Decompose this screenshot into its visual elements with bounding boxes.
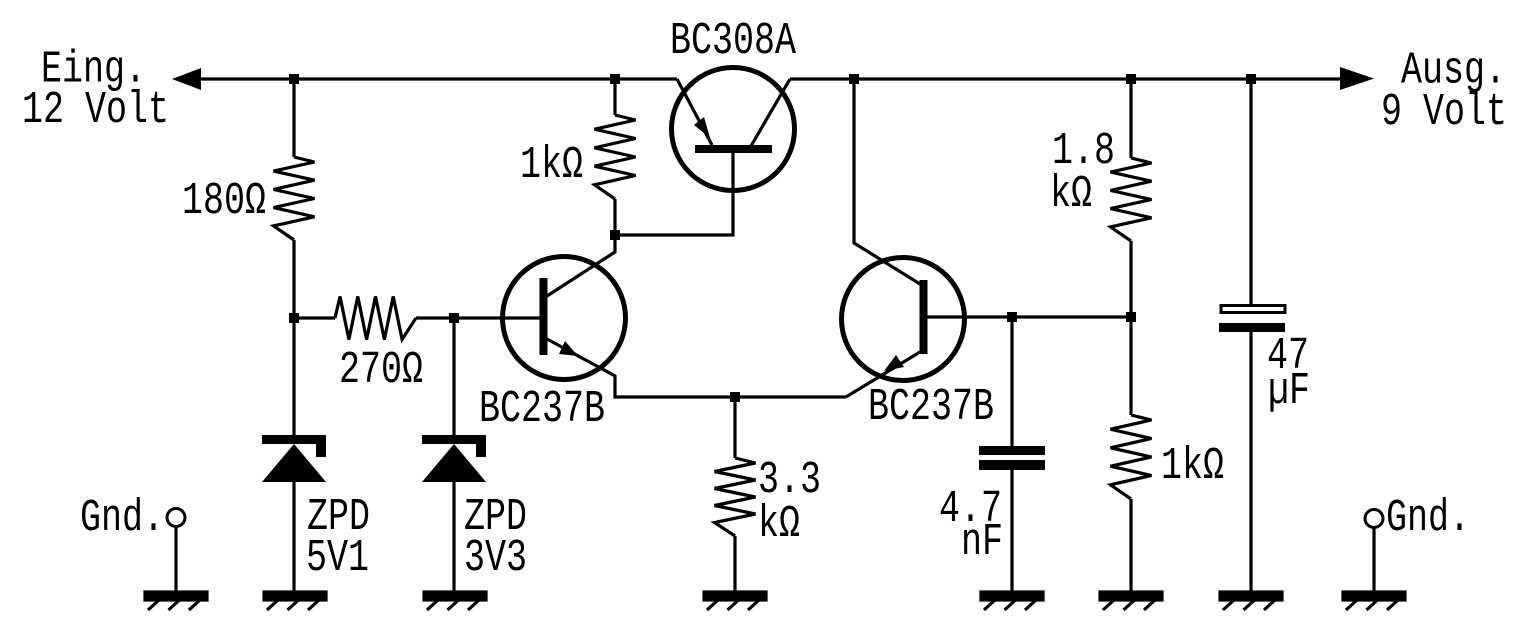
- label 180 ohm: [182, 176, 266, 227]
- wire zener ZPD 5V1 to ground: [292, 481, 295, 593]
- wire top rail left (input to BC308A emitter): [198, 77, 677, 80]
- wire 180ohm node to R 270 ohm: [294, 316, 335, 319]
- wire R270 to base node: [416, 316, 456, 319]
- transistor BC308A emitter lead (to 12V rail): [677, 79, 712, 145]
- wire R1k to base node of BC308A: [613, 199, 616, 235]
- transistor Q1 collector lead: [547, 235, 615, 296]
- wire rail to capacitor 47uF: [1249, 79, 1252, 304]
- svg-text:nF: nF: [961, 517, 1003, 568]
- transistor Q2 base bar: [920, 280, 928, 354]
- label ZPD 5V1: [306, 492, 370, 584]
- transistor BC308A (PNP pass) circle: [672, 68, 795, 191]
- wire rail to R 1.8k: [1129, 79, 1132, 158]
- transistor Q2 emitter arrow: [884, 355, 904, 371]
- wire R180 to zener ZPD 5V1: [292, 240, 295, 436]
- svg-text:µF: µF: [1268, 366, 1310, 417]
- wire right Gnd terminal to ground: [1372, 528, 1375, 593]
- svg-text:12 Volt: 12 Volt: [22, 85, 169, 136]
- node junction 1k / BC308A base / Q1 collector: [610, 230, 620, 240]
- svg-text:BC237B: BC237B: [868, 382, 994, 433]
- label input Eing. 12 Volt: [22, 45, 169, 137]
- ground under 1k right: [1100, 592, 1162, 610]
- node junction top of 1.8k: [1126, 74, 1136, 84]
- svg-text:kΩ: kΩ: [758, 499, 800, 550]
- transistor Q2 emitter lead: [846, 352, 920, 397]
- output arrow (Ausg.): [1340, 67, 1374, 90]
- ground under ZPD 5V1: [264, 592, 326, 610]
- label 1k ohm right: [1161, 441, 1224, 492]
- resistor 270 ohm: [335, 297, 416, 340]
- label BC308A: [670, 16, 797, 67]
- ground terminal right circle: [1365, 510, 1383, 528]
- svg-text:1kΩ: 1kΩ: [520, 140, 583, 191]
- node junction collector wire at rail: [849, 74, 859, 84]
- transistor BC308A collector lead (to 9V rail): [751, 79, 790, 146]
- resistor 3.3k ohm: [715, 458, 756, 536]
- label 3.3 kOhm: [758, 455, 821, 550]
- wire node to capacitor 4.7nF: [1010, 317, 1013, 446]
- ground under 4.7nF: [981, 592, 1043, 610]
- input arrow (Eing.): [172, 68, 201, 90]
- resistor 1.8k ohm: [1111, 158, 1152, 241]
- transistor Q1 base bar: [540, 278, 548, 355]
- node junction divider / Q2 base: [1126, 312, 1136, 322]
- transistor BC308A base bar: [695, 145, 772, 153]
- label 47 uF: [1267, 331, 1310, 417]
- node junction 270 ohm / ZPD 3V3 / base Q1: [449, 313, 459, 323]
- wire R1.8k to divider node: [1129, 241, 1132, 317]
- capacitor 4.7nF plates: [979, 446, 1045, 470]
- svg-text:Gnd.: Gnd.: [80, 493, 164, 544]
- label 270 ohm: [339, 345, 423, 396]
- transistor Q2 base lead wire to divider: [926, 315, 1131, 318]
- wire R3.3k to ground: [733, 536, 736, 593]
- transistor Q2 collector lead to 12V rail: [854, 79, 920, 284]
- wire rail to R 1k: [613, 79, 616, 115]
- wire capacitor 47uF to ground: [1249, 332, 1252, 593]
- node junction emitter rail / 3.3k: [730, 392, 740, 402]
- wire node to R 3.3k: [733, 397, 736, 458]
- ground under 3.3k: [704, 592, 766, 610]
- node junction top of 47uF: [1246, 74, 1256, 84]
- wire divider node to R 1k: [1129, 317, 1132, 415]
- ground under ZPD 3V3: [424, 592, 486, 610]
- label Gnd. right: [1386, 493, 1470, 544]
- label BC237B left: [479, 384, 605, 435]
- svg-text:kΩ: kΩ: [1050, 169, 1092, 220]
- node junction top of 1k ohm resistor: [610, 74, 620, 84]
- transistor Q1 emitter lead: [547, 339, 615, 399]
- label ZPD 3V3: [464, 492, 527, 584]
- transistor Q1 emitter arrow: [559, 341, 578, 356]
- svg-text:BC308A: BC308A: [670, 16, 797, 67]
- label BC237B right: [868, 382, 994, 433]
- svg-text:5V1: 5V1: [306, 533, 369, 584]
- wire shared emitter rail: [614, 395, 847, 398]
- ground under right terminal: [1343, 592, 1405, 610]
- resistor 1k ohm (driver base): [595, 115, 636, 199]
- zener diode ZPD 3V3: [422, 435, 486, 482]
- transistor Q1 base lead wire from 270/zener node: [454, 316, 541, 319]
- node junction base / 4.7nF: [1007, 312, 1017, 322]
- wire capacitor 4.7nF to ground: [1010, 470, 1013, 593]
- resistor 1k ohm right: [1111, 415, 1152, 499]
- label output Ausg. 9 Volt: [1381, 46, 1507, 139]
- svg-text:Gnd.: Gnd.: [1386, 493, 1470, 544]
- ground under 47uF: [1220, 592, 1282, 610]
- label 1.8 kOhm: [1050, 126, 1115, 220]
- transistor BC308A emitter arrow: [694, 117, 710, 138]
- wire node to zener ZPD 3V3: [452, 318, 455, 436]
- node junction 180/270 ohm: [289, 313, 299, 323]
- ground terminal left circle: [167, 509, 185, 527]
- svg-text:3V3: 3V3: [464, 533, 527, 584]
- svg-text:9 Volt: 9 Volt: [1381, 87, 1507, 138]
- svg-text:180Ω: 180Ω: [182, 176, 266, 227]
- wire left Gnd terminal to ground: [174, 527, 177, 593]
- resistor 180 ohm: [274, 157, 315, 240]
- wire R1k to ground: [1129, 499, 1132, 593]
- capacitor 47uF electrolytic plates: [1219, 306, 1285, 333]
- label 1k ohm left: [520, 140, 583, 191]
- svg-text:270Ω: 270Ω: [339, 345, 423, 396]
- transistor Q2 BC237B right circle: [842, 258, 965, 381]
- label Gnd. left: [80, 493, 164, 544]
- wire top rail right (BC308A collector to output): [790, 77, 1342, 80]
- svg-text:BC237B: BC237B: [479, 384, 605, 435]
- svg-text:1kΩ: 1kΩ: [1161, 441, 1224, 492]
- ground under left terminal: [145, 592, 207, 610]
- transistor Q1 BC237B left circle: [503, 257, 626, 380]
- wire zener ZPD 3V3 to ground: [452, 481, 455, 593]
- label 4.7 nF: [939, 484, 1003, 568]
- wire rail to R 180 ohm: [292, 79, 295, 157]
- node junction top of 180 ohm resistor: [289, 74, 299, 84]
- transistor BC308A base lead: [613, 153, 733, 235]
- zener diode ZPD 5V1: [262, 435, 326, 482]
